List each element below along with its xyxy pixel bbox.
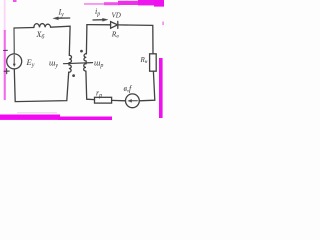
current arrow I_y [56,17,70,19]
source E_y [7,54,22,69]
wire diode to top-right corner, down to R_n [118,25,153,54]
winding w_y [69,55,72,72]
wire w_p top [85,25,88,54]
source e,f [125,94,139,108]
scan artifacts (unlabelled decorative) [0,0,164,120]
wire coil to winding w_y top corner [51,26,71,55]
wire top-left (corner to coil) [14,27,34,30]
wire winding w_p top corner to diode [87,24,111,26]
resistor r_p [95,97,112,103]
core [64,63,93,64]
current arrow i_p [93,19,105,21]
label plus [4,69,9,74]
svg-text:VD: VD [112,12,121,20]
winding w_p [84,54,87,71]
wire R_n to bottom-right corner to source [139,71,155,101]
diode VD [111,22,118,29]
wire r_p to corner and up winding w_p [86,71,95,100]
polarity dot w_p [80,50,83,53]
label minus [4,49,8,51]
inductor X_b [34,24,51,28]
resistor R_n [150,54,157,71]
wire source to resistor r_p [112,99,126,101]
wire w_y bottom to corner [14,69,68,102]
polarity dot w_y [72,74,75,77]
